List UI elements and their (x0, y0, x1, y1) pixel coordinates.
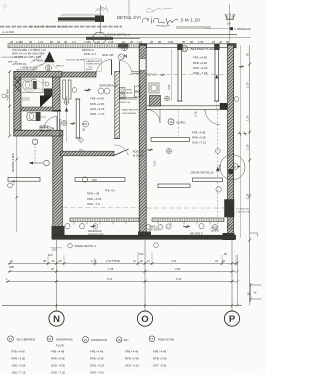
svg-text:OKD –7.15: OKD –7.15 (51, 371, 65, 375)
svg-text:4.10: 4.10 (171, 259, 177, 263)
black triangle callout upper (44, 51, 54, 62)
X blocking in top-left wall corner (15, 78, 21, 92)
neighbour slab rect (8, 177, 40, 181)
legend col 4 WC (117, 337, 122, 342)
svg-text:NFB.TK: NFB.TK (56, 65, 64, 67)
svg-text:14: 14 (48, 337, 52, 341)
svg-text:UKT –4.56: UKT –4.56 (153, 364, 167, 368)
svg-text:2.00 ⊢RFB: 2.00 ⊢RFB (106, 259, 120, 263)
arrow with circle (29, 162, 43, 164)
svg-text:8.4×L: 8.4×L (41, 116, 47, 119)
svg-text:4.5TN N.38 1.85 4PB: 4.5TN N.38 1.85 4PB (1, 57, 22, 59)
svg-text:FFB +4.48: FFB +4.48 (90, 350, 104, 354)
svg-text:1.52: 1.52 (153, 160, 157, 166)
small spec box (86, 60, 102, 71)
circled room number 18 (168, 119, 174, 125)
outer wall axis N (lower-left) (53, 131, 63, 231)
partition wall W1 (115, 72, 120, 139)
dim row 2 (8, 270, 236, 272)
svg-text:O: O (141, 314, 148, 325)
tiny notes bottom (88, 226, 219, 236)
small fittings (22, 98, 30, 100)
svg-text:1.36: 1.36 (246, 193, 250, 199)
footing wall P (223, 233, 235, 240)
svg-text:UKD –4.76: UKD –4.76 (90, 371, 104, 375)
window sill band left room (70, 218, 139, 222)
svg-text:36: 36 (219, 40, 222, 44)
main axis row (2, 304, 242, 306)
svg-text:RFB +4.38: RFB +4.38 (51, 357, 65, 361)
svg-text:BÜRO: BÜRO (177, 120, 187, 124)
svg-text:MÖN CA.+N. 88 1.88.5.8PB: MÖN CA.+N. 88 1.88.5.8PB (12, 51, 45, 55)
washbasin row (120, 88, 126, 93)
washroom entry door leaf (119, 61, 121, 73)
svg-text:OKD –7.15: OKD –7.15 (193, 71, 208, 75)
svg-text:NFB +1.2: NFB +1.2 (84, 52, 96, 56)
svg-text:FFB +4.8: FFB +4.8 (105, 191, 115, 193)
svg-text:FFB +4.48: FFB +4.48 (193, 56, 207, 60)
svg-text:13: 13 (9, 337, 13, 341)
svg-text:5.10: 5.10 (176, 277, 182, 281)
outer wall axis P (right) (228, 45, 234, 238)
axis circle O (137, 311, 152, 326)
svg-text:KEDIENUNG: KEDIENUNG (88, 231, 102, 233)
dark hatched shaft square (150, 96, 161, 107)
svg-text:B: B (234, 165, 236, 169)
svg-text:P: P (229, 314, 236, 325)
svg-text:WB.TB M.TB 2.N 88.5: WB.TB M.TB 2.N 88.5 (16, 70, 37, 72)
svg-text:GERÄTERAUM: GERÄTERAUM (99, 84, 117, 88)
svg-text:RFB +4.38: RFB +4.38 (90, 357, 104, 361)
svg-text:2.55: 2.55 (198, 40, 204, 44)
svg-text:OKD +4.93: OKD +4.93 (90, 107, 105, 111)
svg-text:WAND NACHTR.: WAND NACHTR. (59, 118, 62, 136)
handwritten signature U. Stiftungen (142, 17, 178, 27)
svg-text:GUMMI 2RGÖ: GUMMI 2RGÖ (86, 63, 101, 66)
corner bracket (250, 233, 258, 236)
dashed detail circle on wall P (220, 155, 245, 180)
footing wall O (138, 232, 151, 240)
svg-text:DÄMMS DICHT: DÄMMS DICHT (86, 60, 102, 63)
svg-text:WC HERREN: WC HERREN (17, 337, 36, 341)
svg-text:Tw: Tw (254, 293, 257, 295)
svg-text:WECHSEL 2.RFB: WECHSEL 2.RFB (13, 153, 15, 172)
svg-text:2.00: 2.00 (11, 179, 15, 185)
svg-text:2.BFB MAUER: 2.BFB MAUER (122, 112, 137, 115)
detail oval callout (93, 32, 107, 44)
dark marker + label K.WIDERLAG (205, 27, 230, 29)
corridor door leaf (114, 149, 129, 156)
svg-text:RFB +4.38: RFB +4.38 (125, 357, 139, 361)
double door leaves vertical (63, 80, 66, 99)
gray stamp bar (176, 26, 211, 29)
svg-text:NFB 1.88: NFB 1.88 (8, 62, 18, 64)
faint corner mark (3, 4, 7, 10)
dim row 1 (8, 262, 236, 264)
svg-text:WINDFANG: WINDFANG (91, 338, 108, 342)
svg-text:26: 26 (52, 259, 55, 263)
siehe detail A with circle (68, 243, 73, 248)
svg-text:3.80: 3.80 (167, 84, 171, 90)
svg-text:OKD –4.56: OKD –4.56 (51, 364, 65, 368)
window dashed line across room (129, 74, 228, 76)
svg-text:N.TB⁄NG·L.8×: N.TB⁄NG·L.8× (30, 48, 47, 52)
mid partition hatched (21, 107, 53, 111)
svg-text:18: 18 (169, 120, 173, 124)
pilaster on wall P (225, 200, 235, 218)
witness line 3.80 (171, 49, 173, 101)
svg-text:FFB +4.48: FFB +4.48 (192, 130, 206, 134)
wall face line below inner wall (58, 111, 60, 131)
svg-text:RFB +.38: RFB +.38 (87, 192, 100, 196)
svg-text:m.2 WDV KÖ: m.2 WDV KÖ (236, 208, 249, 211)
svg-text:NFB +2B: NFB +2B (102, 53, 114, 57)
arrow right (84, 89, 91, 91)
svg-text:RFB +4.38: RFB +4.38 (153, 357, 167, 361)
svg-text:RFB +4.38: RFB +4.38 (12, 357, 26, 361)
top wall continues right of WC block to door (62, 72, 96, 77)
circled symbol (72, 88, 77, 93)
inner wall WC/Geraeteraum (53, 77, 61, 111)
svg-text:R=3⁄4×: R=3⁄4× (86, 68, 94, 71)
svg-text:38: 38 (212, 40, 215, 44)
svg-text:n.WELL: n.WELL (149, 226, 158, 228)
note text block upper left (12, 48, 50, 70)
WC block top wall (14, 72, 62, 78)
svg-text:K.WIDERLAG: K.WIDERLAG (235, 27, 251, 31)
svg-text:38.08.38 2.88 NFB: 38.08.38 2.88 NFB (66, 59, 85, 61)
arrows below sill (183, 225, 190, 227)
door leaf dark at besprechung (220, 103, 227, 110)
svg-text:RFB +4.38: RFB +4.38 (193, 61, 207, 65)
level text block buero (192, 130, 206, 144)
door swing arc (96, 60, 112, 75)
svg-text:FFB +4.48: FFB +4.48 (51, 350, 65, 354)
main right dim chain (249, 45, 251, 305)
svg-text:30: 30 (140, 259, 143, 263)
svg-text:16: 16 (117, 338, 121, 342)
svg-text:W.BILD 4x: W.BILD 4x (120, 102, 131, 104)
witness dashed line in buero (178, 111, 180, 137)
survey point symbol on axis P (225, 13, 235, 20)
svg-text:5.10: 5.10 (107, 277, 113, 281)
radiator left room (75, 178, 125, 182)
svg-text:I.TASSE: I.TASSE (125, 92, 134, 95)
svg-text:BESPRECHUNG: BESPRECHUNG (191, 47, 215, 51)
wc bowl upper (23, 81, 32, 89)
svg-text:2.28: 2.28 (194, 111, 198, 117)
svg-text:3 M 1:20: 3 M 1:20 (181, 18, 201, 23)
axis circle N (49, 311, 64, 326)
svg-text:50: 50 (224, 252, 227, 256)
sink fixture near wall O (149, 83, 159, 93)
circle cross symbol (62, 121, 67, 126)
svg-text:43: 43 (215, 259, 218, 263)
handwritten note line 1 (146, 8, 172, 12)
dim row 3 (6, 280, 236, 282)
svg-text:2.10: 2.10 (246, 82, 250, 88)
svg-text:26: 26 (222, 259, 225, 263)
svg-text:WM: WM (92, 178, 97, 182)
door swing arc into buero (205, 110, 220, 125)
svg-text:88: 88 (190, 40, 193, 44)
header sketch pencil scribble (60, 5, 108, 16)
leader lines (30, 55, 46, 66)
svg-text:WC: WC (124, 338, 130, 342)
door opening in wall O (140, 59, 146, 71)
axis P extension line to top (229, 4, 231, 43)
svg-text:45 TN 88 28 1.8 28: 45 TN 88 28 1.8 28 (15, 74, 34, 76)
svg-text:N: N (53, 314, 60, 325)
svg-text:3.80: 3.80 (168, 40, 174, 44)
outer wall axis O (center) (139, 45, 146, 235)
svg-text:SIEHE DETAIL B: SIEHE DETAIL B (191, 171, 214, 175)
right mini chain (237, 255, 239, 305)
svg-text:2.30: 2.30 (218, 164, 222, 170)
svg-text:10: 10 (10, 259, 13, 263)
corridor door arc (114, 145, 128, 156)
lower fixtures scribble (40, 126, 48, 131)
canopy thick segment at detail oval (86, 37, 113, 40)
svg-text:820: 820 (83, 123, 88, 126)
corner shaft triangle (solid) (40, 96, 53, 108)
shelf radiator below wall (151, 137, 190, 141)
svg-text:FFB +4.48: FFB +4.48 (12, 350, 26, 354)
svg-text:WINDFANG/: WINDFANG/ (56, 337, 73, 341)
washroom lower partition (119, 98, 137, 99)
svg-text:SIEHE DETAIL d: SIEHE DETAIL d (107, 32, 130, 36)
door arc from wall O into buero (147, 110, 161, 124)
svg-text:100: 100 (48, 253, 53, 257)
leader line from sketch down (100, 5, 102, 34)
bottom outer wall dark band (52, 235, 236, 239)
circled fixture symbols left of detail-b (122, 45, 128, 51)
svg-text:SIEHE DETAIL A: SIEHE DETAIL A (75, 244, 97, 248)
partition stub B1 (76, 99, 79, 138)
svg-text:DETAIL d’VI: DETAIL d’VI (117, 15, 141, 20)
washroom top wall thin (132, 72, 141, 74)
legend col 5 TEEKUECHE (149, 336, 155, 342)
far-right mini dimension bracket (250, 283, 252, 302)
svg-text:35: 35 (182, 40, 185, 44)
circled node on axis (167, 149, 172, 154)
svg-text:2T⁄N DAUBE L: 2T⁄N DAUBE L (12, 48, 30, 52)
movable partition rail 2 (215, 50, 219, 102)
svg-text:OKD –4.56: OKD –4.56 (12, 364, 26, 368)
canopy edge double line (0, 34, 237, 36)
dashed axis with circle (34, 139, 36, 162)
svg-text:OKD –4.18: OKD –4.18 (90, 364, 104, 368)
svg-text:FFB +4.48: FFB +4.48 (153, 350, 167, 354)
besprechung bottom wall (146, 106, 227, 110)
svg-text:17: 17 (150, 337, 154, 341)
dark cistern mass (44, 89, 52, 96)
door leaf at Geraeteraum (111, 60, 113, 76)
svg-text:UKD –4.18: UKD –4.18 (125, 364, 139, 368)
svg-text:50: 50 (246, 52, 250, 56)
svg-text:J.RFB: J.RFB (126, 90, 133, 92)
window dashed line near bottom (147, 207, 228, 209)
diamond symbol at stub foot (78, 138, 83, 143)
svg-text:RFB: RFB (9, 266, 14, 269)
svg-text:17: 17 (183, 47, 187, 51)
svg-text:KDD+C.K: KDD+C.K (133, 149, 145, 153)
level text block left room (90, 97, 105, 117)
left margin dim line (16, 136, 18, 232)
witness drops from walls (57, 240, 233, 311)
grab rail lines (22, 79, 43, 93)
svg-text:100: 100 (139, 252, 144, 256)
svg-text:15: 15 (84, 338, 88, 342)
svg-text:W.DL 48: W.DL 48 (133, 153, 143, 157)
svg-text:26: 26 (51, 267, 54, 271)
svg-text:OKD –7.9: OKD –7.9 (87, 202, 100, 206)
vent symbol circles (98, 88, 104, 94)
svg-text:38: 38 (43, 259, 46, 263)
svg-text:1.BÜRO: 1.BÜRO (211, 230, 220, 233)
plumbing riser line with symbols (66, 96, 68, 142)
circled marks below sill (65, 224, 70, 229)
svg-text:38: 38 (59, 259, 62, 263)
washroom entry door arc (120, 61, 132, 73)
svg-text:OKD +4.33: OKD +4.33 (193, 66, 208, 70)
lower wc bowl (27, 113, 36, 121)
legend col 1 WC HERREN (8, 336, 14, 342)
arrow right (70, 122, 76, 124)
svg-text:FFB +4.48: FFB +4.48 (90, 97, 104, 101)
circled label 820 (83, 121, 89, 127)
svg-text:4.88 FBH: 4.88 FBH (6, 89, 10, 100)
top dimension text row (10, 40, 229, 44)
level text block (193, 56, 208, 76)
WC block bottom wall (14, 130, 63, 136)
header sketch dark bar (58, 17, 102, 20)
legend col 3 WINDFANG (83, 337, 89, 343)
movable partition rail 1 (178, 50, 182, 102)
svg-text:OKD –7.15: OKD –7.15 (90, 112, 105, 116)
svg-text:WAND NACHTR: WAND NACHTR (122, 109, 139, 112)
axis circle P (224, 311, 239, 326)
terrace line right of P (239, 45, 241, 238)
svg-text:L.DK WOV 28: L.DK WOV 28 (236, 212, 251, 214)
radiators buero (158, 184, 190, 188)
svg-text:FFB +4.48: FFB +4.48 (125, 350, 139, 354)
cistern dark (33, 81, 37, 89)
svg-text:m.STL: m.STL (211, 227, 218, 229)
svg-text:2.10: 2.10 (246, 144, 250, 150)
svg-text:OKD +7.15: OKD +7.15 (192, 140, 206, 144)
svg-text:OKD +4.93: OKD +4.93 (87, 197, 102, 201)
lower door arc (44, 117, 57, 130)
circled cross symbol (165, 96, 170, 101)
svg-text:RFB +4.28: RFB +4.28 (90, 102, 104, 106)
washbasins at wall O (135, 86, 141, 91)
level text block lower-left room (87, 192, 102, 206)
dashed vertical through buero (217, 110, 219, 230)
svg-text:FLUR: FLUR (56, 343, 65, 347)
svg-text:1H: 1H (227, 22, 231, 26)
left dim line along WC block (9, 71, 11, 136)
window sill band right room (152, 218, 224, 222)
svg-text:4–A 1KD: 4–A 1KD (3, 30, 16, 34)
corridor wall lower-left room (61, 151, 115, 156)
svg-text:OKD –7.15: OKD –7.15 (12, 371, 26, 375)
svg-text:4.90: 4.90 (175, 267, 181, 271)
legend col 2 WINDFANG/FLUR (47, 336, 53, 342)
svg-text:88: 88 (158, 40, 161, 44)
svg-text:TEEKÜCHE: TEEKÜCHE (158, 337, 174, 341)
dashed guide with arrow (216, 101, 218, 110)
WC block left outer wall (14, 72, 21, 136)
svg-text:1.08: 1.08 (108, 267, 114, 271)
svg-text:1.36: 1.36 (246, 115, 250, 121)
circled room number 17 (182, 46, 188, 52)
svg-text:1.70: 1.70 (91, 259, 97, 263)
svg-text:36: 36 (150, 40, 153, 44)
svg-text:LüK.WOV: LüK.WOV (149, 230, 160, 232)
hatched facade band (top wall) (8, 44, 141, 48)
footing wall N (52, 226, 65, 239)
svg-text:RFB +4.38: RFB +4.38 (192, 135, 206, 139)
